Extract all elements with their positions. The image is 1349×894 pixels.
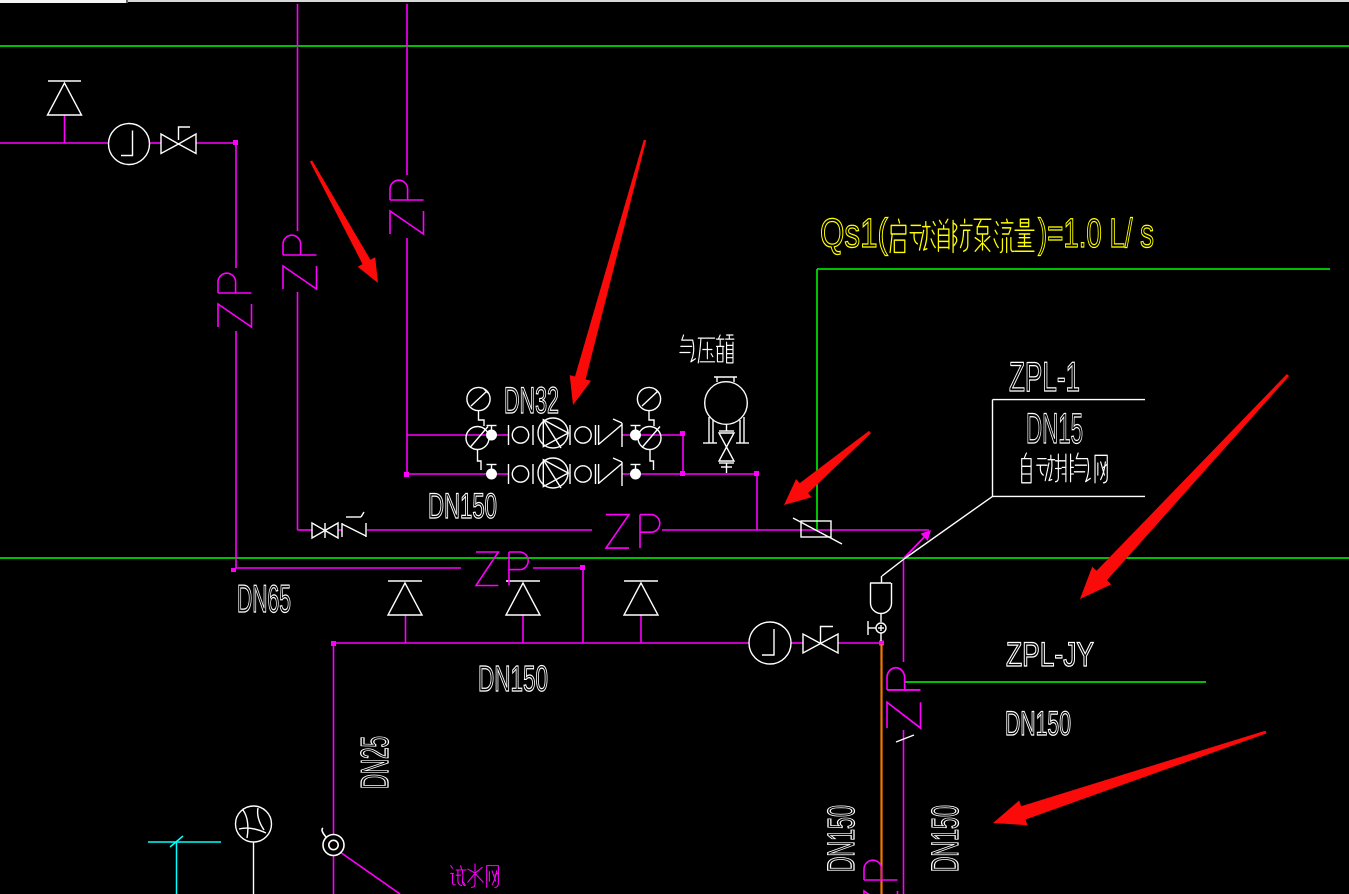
label ZP rotated on riser x407 [390,180,424,234]
wire ZP line y568 [236,567,461,569]
sprinkler stem 1 [405,615,407,643]
flexible joint row1 left [509,425,534,445]
label 气压罐 white [680,335,734,363]
sprinkler stem 3 [640,615,642,643]
pressure tank [703,377,749,473]
svg-text:DN150: DN150 [1005,705,1071,743]
check valve row1 [599,419,622,447]
drain cock row2 right [631,465,641,479]
red arrow A2 [570,140,647,405]
flexible joint row2 right [570,464,596,484]
wire ZP riser x236 [235,143,237,268]
wire DN150 discharge header y530 [298,529,313,531]
label ZP on y568 line [476,552,528,586]
svg-text:DN15: DN15 [1026,405,1083,453]
wire sprinkler bus y643 [334,642,750,644]
wire pump suction row1 y435 [407,434,508,436]
check valve row2 [599,458,622,486]
fire pump P1 [538,418,568,448]
red arrow A3 [784,431,871,505]
flow indicator circle top-left [109,124,150,165]
sprinkler symbol 1 [388,581,422,615]
svg-text:ZPL-1: ZPL-1 [1009,353,1080,400]
water meter ball bottom-left [236,806,272,894]
sprinkler symbol 2 [506,581,540,615]
pipe break tick on ZP drop [896,735,914,742]
fire pump P2 [538,458,568,488]
test valve circle [322,828,344,856]
svg-text:)=1.0 L/ s: )=1.0 L/ s [1038,210,1154,256]
wire ZP drop x903 [903,559,905,662]
label ZP rotated on drop x903 [887,668,921,728]
wire pump right bus x683 [682,433,684,474]
orange jockey pipe x881 [880,644,882,894]
magenta flow arrow into ZP drop [904,533,929,559]
label ZP rotated on riser x236 [218,273,252,327]
gauge cock left [466,427,489,471]
drain cock row1 right [631,426,641,440]
drain cock row1 [487,426,497,440]
wire test drop x333 [333,643,335,834]
automatic air vent symbol [868,576,892,641]
cyan tee symbol [148,836,221,894]
flexible joint row1 right [570,425,596,445]
sprinkler symbol 3 [624,581,658,615]
toolbar strip top [0,0,1349,2]
grid line green G2 [0,557,1349,559]
svg-text:DN150: DN150 [478,658,548,699]
red arrow A1 [310,160,378,283]
wire pump suction row2 y474 [407,473,508,475]
green ZPL-JY underline G5 [904,681,1206,683]
svg-text:DN150: DN150 [925,805,967,872]
green horizontal G4 [817,268,1330,270]
red arrow A4 [1080,374,1289,599]
wire ZP riser x298 [297,4,299,231]
alarm check valve symbol top-left [48,81,82,115]
svg-text:DN65: DN65 [237,578,291,621]
flow switch circle on sprinkler bus [749,622,791,664]
gauge cock right [638,427,661,471]
label 试水阀 magenta [451,864,499,887]
wire test valve diagonal [340,852,400,894]
pressure gauge right [637,387,660,426]
pressure gauge left [467,387,490,426]
wire discharge drop x757 [756,474,758,530]
grid line green G1 [0,45,1349,47]
label ZP rotated on riser x298 [283,235,317,289]
label ZP rotated bottom on orange pipe [864,860,898,894]
svg-text:Qs1(: Qs1( [820,210,888,256]
sprinkler stem 2 [522,615,524,643]
alarm valve stem top-left [64,115,66,143]
drain cock row2 [487,465,497,479]
svg-text:DN32: DN32 [504,380,559,421]
red arrow A5 [993,731,1267,826]
svg-text:DN150: DN150 [428,487,497,526]
green riser vertical G3 [816,269,818,531]
svg-text:ZPL-JY: ZPL-JY [1006,636,1094,674]
wire ZP branch top-left y143 [0,142,108,144]
flow meter rect on header [793,518,842,544]
butterfly valve on sprinkler bus [803,627,838,654]
ZPL-1 label box [882,400,1145,576]
label 自动排气阀 white [1022,453,1108,483]
flexible joint row2 left [509,464,534,484]
gate valve top-left [161,127,196,154]
gate valve with check on DN150 line [312,512,366,538]
label ZP big on header [606,515,660,549]
wire drop x583 to sprinkler bus [582,568,584,643]
label 启动消防泵流量 yellow [890,219,1034,252]
svg-text:DN25: DN25 [354,736,397,789]
wire ZP riser x407 [406,4,408,175]
svg-text:DN150: DN150 [821,805,863,872]
